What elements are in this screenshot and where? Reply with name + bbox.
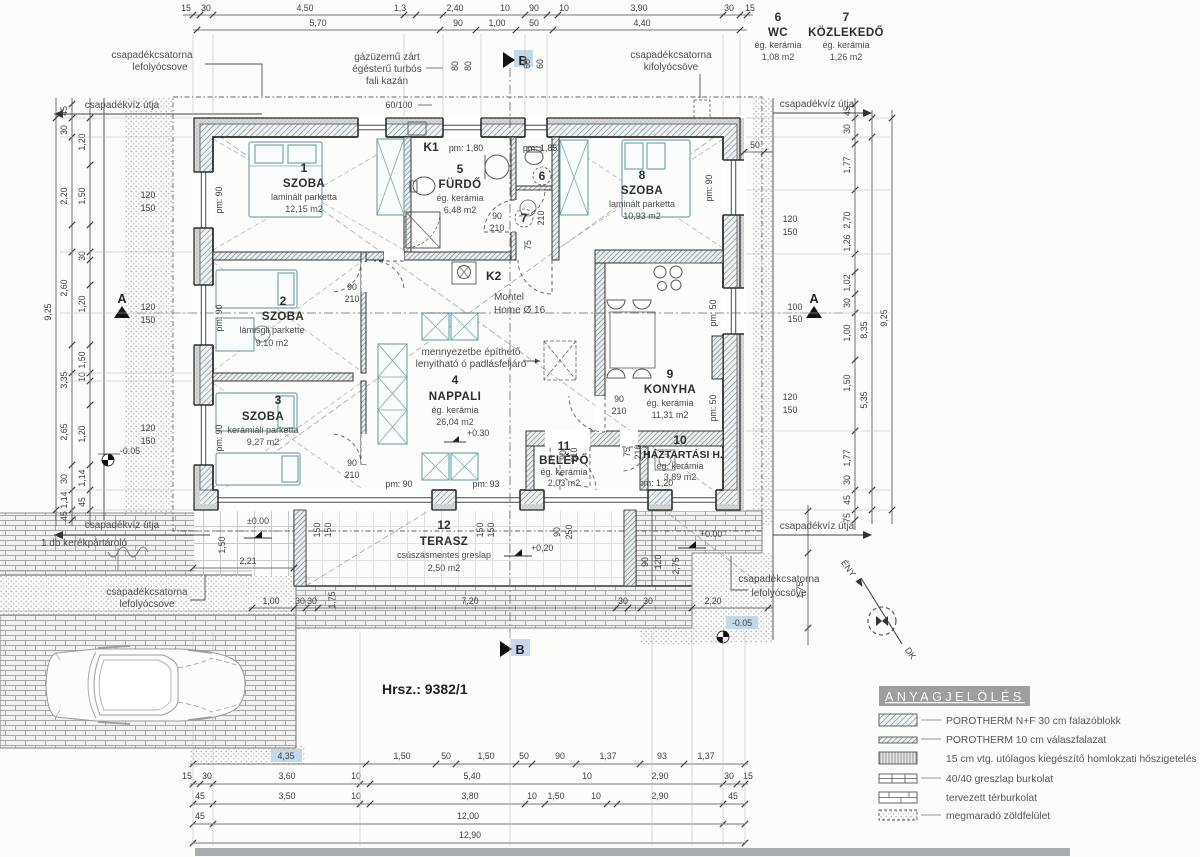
svg-text:30: 30 bbox=[201, 3, 211, 13]
svg-text:2,90: 2,90 bbox=[651, 791, 668, 801]
svg-text:laminált parketta: laminált parketta bbox=[609, 199, 675, 209]
svg-text:50: 50 bbox=[529, 18, 539, 28]
svg-text:-0.05: -0.05 bbox=[732, 618, 752, 628]
svg-text:9: 9 bbox=[667, 367, 674, 381]
shelf column nappali bbox=[378, 344, 407, 444]
svg-text:12,15 m2: 12,15 m2 bbox=[285, 204, 323, 214]
door arc wc bbox=[519, 190, 545, 216]
svg-text:2,50 m2: 2,50 m2 bbox=[428, 563, 461, 573]
legend item hatch bbox=[879, 714, 917, 726]
vertical dim right of terrace bbox=[807, 505, 809, 645]
svg-text:ég. kerámia: ég. kerámia bbox=[540, 467, 587, 477]
wall bathroom south bbox=[404, 252, 516, 260]
svg-text:3,35: 3,35 bbox=[59, 371, 69, 388]
svg-text:90: 90 bbox=[614, 394, 624, 404]
wall hall/rooms lower bbox=[361, 381, 366, 464]
svg-text:90: 90 bbox=[347, 458, 357, 468]
svg-text:6: 6 bbox=[775, 10, 782, 24]
svg-text:lefolyócsove: lefolyócsove bbox=[132, 62, 187, 73]
svg-text:120: 120 bbox=[141, 423, 156, 433]
svg-text:75: 75 bbox=[622, 447, 632, 457]
right dimension column inner bbox=[854, 98, 856, 530]
svg-text:pm: 90: pm: 90 bbox=[214, 304, 224, 331]
svg-text:10: 10 bbox=[582, 771, 592, 781]
svg-text:1,00: 1,00 bbox=[262, 596, 279, 606]
svg-text:210: 210 bbox=[612, 406, 627, 416]
svg-text:1,37: 1,37 bbox=[697, 751, 714, 761]
svg-text:megmaradó zöldfelület: megmaradó zöldfelület bbox=[946, 811, 1050, 822]
door gap room1 bbox=[384, 251, 404, 261]
svg-text:ég. kerámia: ég. kerámia bbox=[436, 193, 483, 203]
bottom dim row 3 bbox=[193, 803, 745, 805]
svg-text:kerámiáli parketta: kerámiáli parketta bbox=[227, 425, 298, 435]
svg-text:pm: 50: pm: 50 bbox=[708, 394, 718, 421]
svg-text:1,14: 1,14 bbox=[77, 469, 87, 486]
svg-text:9,25: 9,25 bbox=[879, 309, 889, 326]
svg-text:6,48 m2: 6,48 m2 bbox=[444, 205, 477, 215]
svg-text:1,00: 1,00 bbox=[488, 18, 505, 28]
svg-text:90: 90 bbox=[555, 751, 565, 761]
right dimension column outer bbox=[891, 110, 893, 524]
window right wall konyha bbox=[722, 288, 745, 334]
svg-text:10: 10 bbox=[351, 791, 361, 801]
svg-text:30: 30 bbox=[59, 474, 69, 484]
svg-text:pm: 1,80: pm: 1,80 bbox=[449, 143, 483, 153]
svg-text:pm: 90: pm: 90 bbox=[214, 186, 224, 213]
stipple fringe around driveway bbox=[248, 576, 310, 631]
compass north arrow bbox=[856, 578, 903, 644]
outer wall top bbox=[194, 118, 740, 124]
bed2 room3 bbox=[216, 453, 300, 485]
wall bathroom west bbox=[404, 137, 411, 260]
svg-text:2,65: 2,65 bbox=[59, 423, 69, 440]
svg-text:7: 7 bbox=[843, 10, 850, 24]
svg-text:150: 150 bbox=[323, 523, 333, 538]
wall room1 south bbox=[213, 252, 384, 260]
svg-text:1,37: 1,37 bbox=[599, 751, 616, 761]
svg-text:2,20: 2,20 bbox=[704, 596, 721, 606]
sofa squares nappali lower bbox=[422, 453, 449, 480]
outer wall bottom bbox=[194, 504, 740, 510]
svg-text:60: 60 bbox=[535, 59, 545, 69]
svg-text:pm: 1,20: pm: 1,20 bbox=[639, 478, 673, 488]
svg-text:csapadékvíz útja: csapadékvíz útja bbox=[85, 100, 160, 111]
brick path right of terrace bbox=[636, 511, 762, 553]
svg-text:-0.05: -0.05 bbox=[120, 446, 140, 456]
svg-text:90: 90 bbox=[640, 557, 650, 567]
svg-text:1,50: 1,50 bbox=[217, 536, 227, 553]
outer wall right bbox=[737, 118, 744, 510]
svg-text:7,20: 7,20 bbox=[461, 596, 478, 606]
svg-text:210: 210 bbox=[345, 294, 360, 304]
diagonal projection lines bbox=[197, 120, 760, 586]
svg-text:Home Ø 16: Home Ø 16 bbox=[494, 305, 546, 316]
svg-text:laminált parketta: laminált parketta bbox=[271, 192, 337, 202]
legend item vlin bbox=[879, 752, 917, 764]
svg-text:pm: 90: pm: 90 bbox=[214, 424, 224, 451]
50 eave dim right bbox=[744, 151, 773, 153]
svg-text:120: 120 bbox=[783, 214, 798, 224]
wall bathroom east lower bbox=[511, 232, 516, 260]
top dimension row 2 bbox=[193, 29, 747, 31]
door arc bathroom bbox=[484, 200, 516, 232]
bottom gray bar bbox=[195, 848, 1070, 856]
svg-text:90: 90 bbox=[558, 450, 568, 460]
svg-text:9,25: 9,25 bbox=[43, 303, 53, 320]
svg-text:2,70: 2,70 bbox=[842, 211, 852, 228]
svg-text:ég. kerámia: ég. kerámia bbox=[822, 40, 869, 50]
door gap belepo-nappali bbox=[545, 430, 590, 447]
svg-text:4,50: 4,50 bbox=[296, 3, 313, 13]
svg-text:10: 10 bbox=[673, 433, 687, 447]
svg-text:1,20: 1,20 bbox=[77, 133, 87, 150]
window top wall room1 bbox=[358, 117, 386, 138]
wall room2/room3 bbox=[213, 373, 353, 381]
svg-text:30: 30 bbox=[59, 125, 69, 135]
tiled area left of terrace (40/40 greslap) bbox=[194, 510, 294, 576]
svg-text:75: 75 bbox=[842, 513, 852, 523]
svg-text:csúszásmentes greslap: csúszásmentes greslap bbox=[397, 550, 491, 560]
svg-text:15 cm vtg. utólagos kiegészítő: 15 cm vtg. utólagos kiegészítő homlokzat… bbox=[946, 754, 1197, 765]
outer wall left bbox=[194, 118, 200, 510]
svg-text:10: 10 bbox=[527, 791, 537, 801]
wall belepo west bbox=[526, 446, 534, 490]
svg-text:3,90: 3,90 bbox=[630, 3, 647, 13]
section line B-B bbox=[509, 68, 511, 640]
svg-text:POROTHERM 10 cm válaszfalazat: POROTHERM 10 cm válaszfalazat bbox=[946, 735, 1106, 746]
svg-text:15: 15 bbox=[182, 771, 192, 781]
svg-text:+0.30: +0.30 bbox=[467, 428, 489, 438]
svg-text:150: 150 bbox=[486, 523, 496, 538]
section marker B top bbox=[514, 50, 533, 67]
svg-text:120: 120 bbox=[141, 302, 156, 312]
window left wall room3 bbox=[193, 405, 214, 465]
svg-text:210: 210 bbox=[633, 445, 643, 460]
svg-text:ég. kerámia: ég. kerámia bbox=[431, 405, 478, 415]
fridge/chimney block konyha bbox=[712, 336, 723, 379]
svg-text:50: 50 bbox=[441, 751, 451, 761]
svg-text:2,90: 2,90 bbox=[651, 771, 668, 781]
svg-text:SZOBA: SZOBA bbox=[262, 311, 304, 323]
svg-text:150: 150 bbox=[141, 203, 156, 213]
svg-text:30: 30 bbox=[295, 596, 305, 606]
svg-text:90: 90 bbox=[492, 211, 502, 221]
terrace hatched end columns bbox=[294, 510, 306, 586]
svg-text:1,50: 1,50 bbox=[77, 187, 87, 204]
door arc haztartasi bbox=[622, 447, 646, 471]
svg-text:1,26: 1,26 bbox=[842, 234, 852, 251]
window bottom wall haztartasi bbox=[672, 489, 716, 511]
door gap konyha bbox=[595, 396, 606, 433]
svg-text:5: 5 bbox=[457, 162, 464, 176]
door gap room2 bbox=[361, 262, 367, 292]
dining chairs top bbox=[607, 300, 625, 309]
stipple band lower-left under street bbox=[0, 576, 250, 614]
svg-text:150: 150 bbox=[783, 405, 798, 415]
kitchen stove burners bbox=[654, 266, 666, 278]
wc toilet bathroom bbox=[413, 177, 435, 195]
svg-text:pm: 90: pm: 90 bbox=[704, 174, 714, 201]
svg-text:30: 30 bbox=[77, 251, 87, 261]
svg-text:Hrsz.: 9382/1: Hrsz.: 9382/1 bbox=[382, 681, 468, 697]
right dimension column mid bbox=[871, 110, 873, 524]
svg-text:45: 45 bbox=[842, 106, 852, 116]
dim 2,21 left bbox=[193, 567, 294, 569]
svg-text:3,80: 3,80 bbox=[461, 791, 478, 801]
bed room3 bbox=[216, 393, 297, 431]
svg-text:30: 30 bbox=[643, 596, 653, 606]
legend item dots bbox=[879, 810, 917, 820]
svg-text:90: 90 bbox=[529, 3, 539, 13]
svg-text:1,75: 1,75 bbox=[795, 581, 805, 598]
svg-text:120: 120 bbox=[141, 190, 156, 200]
dining table bbox=[610, 312, 655, 368]
svg-text:45: 45 bbox=[59, 106, 69, 116]
svg-text:TERASZ: TERASZ bbox=[420, 536, 468, 548]
svg-text:210: 210 bbox=[345, 470, 360, 480]
svg-text:10,93 m2: 10,93 m2 bbox=[623, 211, 661, 221]
svg-text:K1: K1 bbox=[423, 140, 439, 154]
window right wall szoba8 bbox=[722, 160, 745, 215]
wardrobe szoba8 bbox=[560, 140, 588, 215]
door arc belepo bbox=[550, 447, 590, 487]
svg-text:2,20: 2,20 bbox=[59, 187, 69, 204]
svg-text:1,14: 1,14 bbox=[59, 491, 69, 508]
svg-text:15: 15 bbox=[181, 3, 191, 13]
svg-text:30: 30 bbox=[842, 124, 852, 134]
dining chairs bottom bbox=[607, 369, 625, 378]
svg-text:A: A bbox=[117, 292, 126, 306]
svg-text:12: 12 bbox=[437, 518, 451, 532]
svg-text:90: 90 bbox=[552, 527, 562, 537]
svg-text:40/40 greszlap burkolat: 40/40 greszlap burkolat bbox=[946, 774, 1053, 785]
dim line under terrace bbox=[249, 607, 773, 609]
K2 sink nappali bbox=[452, 262, 476, 284]
svg-text:1,75: 1,75 bbox=[327, 591, 337, 608]
svg-text:150: 150 bbox=[141, 436, 156, 446]
svg-text:5,35: 5,35 bbox=[859, 391, 869, 408]
wall hall/rooms upper bbox=[361, 252, 366, 373]
svg-text:80: 80 bbox=[463, 61, 473, 71]
bottom dim row 5 bbox=[193, 842, 745, 844]
toilet wc room bbox=[525, 150, 543, 165]
svg-text:WC: WC bbox=[768, 27, 788, 39]
attic hatch dashed bbox=[544, 341, 576, 380]
svg-text:250: 250 bbox=[564, 525, 574, 540]
svg-text:mennyezetbe építhető: mennyezetbe építhető bbox=[422, 347, 521, 358]
svg-text:150: 150 bbox=[783, 227, 798, 237]
svg-text:10: 10 bbox=[351, 771, 361, 781]
svg-text:HÁZTARTÁSI H.: HÁZTARTÁSI H. bbox=[643, 448, 723, 461]
svg-text:+0,20: +0,20 bbox=[531, 543, 553, 553]
svg-text:SZOBA: SZOBA bbox=[242, 411, 284, 423]
svg-text:120: 120 bbox=[653, 555, 663, 570]
svg-text:90: 90 bbox=[347, 282, 357, 292]
svg-text:1: 1 bbox=[301, 161, 308, 175]
svg-text:csapadékcsatorna: csapadékcsatorna bbox=[630, 50, 712, 61]
svg-text:30: 30 bbox=[724, 771, 734, 781]
bed szoba8 bbox=[622, 140, 690, 217]
svg-text:4,35: 4,35 bbox=[277, 751, 294, 761]
rain pipe box top right bbox=[694, 100, 710, 118]
legend item brick bbox=[879, 792, 917, 803]
top dimension row 1 bbox=[183, 14, 753, 16]
svg-text:12,90: 12,90 bbox=[459, 830, 481, 840]
bed room1 bbox=[249, 142, 322, 217]
wall belepo/haztartasi north bbox=[526, 431, 723, 446]
svg-text:1,77: 1,77 bbox=[842, 449, 852, 466]
wall konyha west bbox=[595, 263, 605, 396]
svg-text:+0.00: +0.00 bbox=[700, 529, 722, 539]
svg-text:FÜRDŐ: FÜRDŐ bbox=[439, 178, 482, 191]
svg-text:1,26 m2: 1,26 m2 bbox=[830, 52, 863, 62]
wall haztartasi west bbox=[640, 446, 648, 490]
svg-text:2,60: 2,60 bbox=[59, 279, 69, 296]
washbasin corridor7 bbox=[520, 200, 536, 216]
wall wc-corridor east bbox=[552, 137, 559, 260]
svg-text:9,10 m2: 9,10 m2 bbox=[256, 338, 289, 348]
svg-text:Montel: Montel bbox=[494, 292, 524, 303]
svg-text:9,27 m2: 9,27 m2 bbox=[247, 437, 280, 447]
svg-text:±0.00: ±0.00 bbox=[247, 516, 269, 526]
svg-text:30: 30 bbox=[724, 3, 734, 13]
door arc entrance bbox=[560, 454, 596, 490]
svg-text:210: 210 bbox=[536, 211, 546, 226]
svg-text:POROTHERM N+F 30 cm falazóblo: POROTHERM N+F 30 cm falazóblokk bbox=[946, 716, 1122, 727]
svg-text:csapadékvíz útja: csapadékvíz útja bbox=[85, 520, 160, 531]
kitchen counter line bbox=[645, 262, 700, 264]
svg-text:80: 80 bbox=[450, 61, 460, 71]
svg-text:11,31 m2: 11,31 m2 bbox=[652, 410, 689, 420]
svg-text:ég. kerámia: ég. kerámia bbox=[646, 398, 693, 408]
svg-text:30: 30 bbox=[307, 596, 317, 606]
svg-text:45: 45 bbox=[59, 511, 69, 521]
door bottom wall belepo entrance bbox=[544, 489, 648, 511]
svg-text:1,00: 1,00 bbox=[842, 324, 852, 341]
svg-text:1,20: 1,20 bbox=[77, 295, 87, 312]
svg-text:75: 75 bbox=[523, 240, 533, 250]
svg-text:1 db kerékpártároló: 1 db kerékpártároló bbox=[41, 538, 128, 549]
svg-text:pm: 1,85: pm: 1,85 bbox=[523, 143, 557, 153]
brick path below terrace bbox=[296, 586, 692, 628]
svg-text:2: 2 bbox=[280, 294, 287, 308]
svg-text:6: 6 bbox=[539, 169, 546, 183]
svg-text:7: 7 bbox=[521, 211, 528, 225]
svg-text:ANYAGJELÖLÉS: ANYAGJELÖLÉS bbox=[885, 689, 1025, 704]
door arc room2 bbox=[331, 262, 361, 292]
svg-text:150: 150 bbox=[475, 523, 485, 538]
svg-text:1,3: 1,3 bbox=[394, 3, 406, 13]
legend header anyagjeloles bbox=[879, 686, 1030, 706]
svg-text:ég. kerámia: ég. kerámia bbox=[754, 40, 801, 50]
svg-text:B: B bbox=[515, 643, 524, 657]
svg-text:csapadékcsatorna: csapadékcsatorna bbox=[106, 587, 188, 598]
door arc corridor-nappali bbox=[518, 260, 552, 294]
door arc room1 bbox=[374, 261, 404, 291]
green strip right of building (stipple) bbox=[752, 98, 773, 526]
svg-text:45: 45 bbox=[195, 791, 205, 801]
svg-text:4: 4 bbox=[452, 373, 459, 387]
door gap bathroom bbox=[511, 200, 517, 232]
bottom dim row 1 bbox=[271, 749, 302, 762]
svg-text:45: 45 bbox=[728, 791, 738, 801]
washbasin bathroom bbox=[485, 155, 509, 179]
svg-text:tervezett térburkolat: tervezett térburkolat bbox=[946, 793, 1037, 804]
legend item thin bbox=[879, 737, 917, 743]
svg-text:3: 3 bbox=[275, 393, 282, 407]
svg-text:120: 120 bbox=[783, 392, 798, 402]
svg-text:90: 90 bbox=[453, 18, 463, 28]
extension lines right bbox=[746, 118, 890, 510]
big driveway brick area with border bbox=[0, 615, 296, 748]
svg-text:93: 93 bbox=[657, 751, 667, 761]
opening bottom wall terrace door bbox=[218, 489, 432, 511]
sofa squares nappali upper bbox=[422, 313, 449, 340]
svg-text:50: 50 bbox=[750, 140, 760, 150]
svg-text:15: 15 bbox=[745, 3, 755, 13]
legend item grid bbox=[879, 774, 917, 783]
svg-text:lámisgli parkette: lámisgli parkette bbox=[239, 325, 304, 335]
window top wall 60/100 above bathroom bbox=[443, 117, 481, 138]
terrace tiles bbox=[306, 510, 636, 586]
svg-text:30: 30 bbox=[618, 596, 628, 606]
svg-text:1,50: 1,50 bbox=[547, 791, 564, 801]
svg-text:5,40: 5,40 bbox=[463, 771, 480, 781]
boiler on top wall bbox=[408, 122, 426, 135]
svg-text:30: 30 bbox=[842, 475, 852, 485]
door gap room3 bbox=[361, 434, 367, 464]
bottom dim row 4 bbox=[193, 823, 745, 825]
svg-text:10: 10 bbox=[559, 3, 569, 13]
svg-text:150: 150 bbox=[788, 314, 803, 324]
svg-text:pm: 50: pm: 50 bbox=[708, 299, 718, 326]
svg-text:4,40: 4,40 bbox=[633, 18, 650, 28]
window left wall room2 bbox=[193, 285, 214, 345]
svg-text:1,50: 1,50 bbox=[842, 374, 852, 391]
level -0.05 right (highlight) bbox=[726, 616, 758, 629]
svg-text:ég. kerámia: ég. kerámia bbox=[656, 461, 703, 471]
left dimension column bbox=[55, 98, 57, 526]
svg-text:100: 100 bbox=[788, 302, 803, 312]
bed room2 bbox=[216, 270, 297, 308]
window bottom wall nappali bbox=[456, 489, 520, 511]
svg-text:30: 30 bbox=[202, 771, 212, 781]
car top view bbox=[46, 646, 245, 724]
svg-text:NAPPALI: NAPPALI bbox=[429, 391, 481, 403]
svg-text:fali kazán: fali kazán bbox=[366, 76, 408, 87]
svg-text:10: 10 bbox=[591, 791, 601, 801]
svg-text:kifolyócsöve: kifolyócsöve bbox=[644, 62, 699, 73]
svg-text:KÖZLEKEDŐ: KÖZLEKEDŐ bbox=[808, 26, 884, 39]
svg-text:12,00: 12,00 bbox=[457, 811, 479, 821]
svg-text:1,50: 1,50 bbox=[393, 751, 410, 761]
section marker B bottom bbox=[511, 639, 530, 656]
window left wall room1 bbox=[193, 172, 214, 228]
wardrobe room1 bbox=[377, 139, 404, 215]
wall bathroom east upper bbox=[511, 137, 516, 200]
svg-text:lenyitható ó padlásfeljáró: lenyitható ó padlásfeljáró bbox=[416, 359, 527, 370]
svg-text:50: 50 bbox=[519, 751, 529, 761]
svg-text:1,02: 1,02 bbox=[842, 274, 852, 291]
svg-text:1,50: 1,50 bbox=[477, 751, 494, 761]
svg-text:3,60: 3,60 bbox=[278, 771, 295, 781]
svg-text:2,03 m2: 2,03 m2 bbox=[548, 478, 581, 488]
svg-text:30: 30 bbox=[842, 298, 852, 308]
svg-text:2,40: 2,40 bbox=[446, 3, 463, 13]
svg-text:KONYHA: KONYHA bbox=[644, 384, 696, 396]
svg-text:1,20: 1,20 bbox=[77, 425, 87, 442]
bike rack symbol bbox=[108, 547, 148, 557]
